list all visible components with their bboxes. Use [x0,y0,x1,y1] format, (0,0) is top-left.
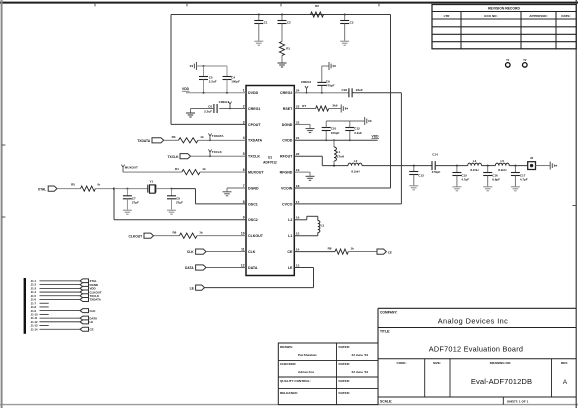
node L1 top [333,139,335,141]
inductor L4 [468,159,482,172]
port arrow CLK [187,249,206,254]
svg-text:6.8pF: 6.8pF [492,178,500,182]
svg-text:2.2uF: 2.2uF [354,131,362,135]
svg-text:470pF: 470pF [326,84,335,88]
node TXDATA flag [209,139,211,141]
wire C18 to CVCO vertical [352,92,401,94]
svg-text:ADF7012: ADF7012 [263,161,277,165]
wire to OSC1 pin 8 [196,203,247,205]
svg-text:100pF: 100pF [231,80,240,84]
capacitor C16 [483,166,500,187]
svg-text:CPOUT: CPOUT [248,123,261,127]
svg-text:C2: C2 [287,20,291,24]
connector J1 pin J1-6 net TXDATA [31,298,102,302]
svg-text:J1-9: J1-9 [31,309,37,313]
svg-text:TITLE:: TITLE: [380,330,390,334]
wire TXDATA [164,139,179,141]
wire RF line 3 [435,165,468,167]
wire pin 2 CREG1 [219,108,246,110]
node C7 top [126,188,128,190]
svg-text:8: 8 [243,200,245,204]
wire pin 22 DGND [294,123,310,125]
svg-text:RFGND: RFGND [280,171,293,175]
svg-text:10: 10 [241,232,245,236]
svg-text:T1: T1 [506,58,510,62]
svg-text:A: A [563,379,568,386]
svg-text:1k: 1k [202,167,206,171]
svg-text:J1-11: J1-11 [31,316,38,320]
svg-text:VDD: VDD [182,87,190,91]
svg-text:LE: LE [90,320,94,324]
node CREG2 flag [306,92,308,94]
svg-text:J1-14: J1-14 [31,327,38,331]
ground at C15 [452,187,461,191]
svg-text:CLK: CLK [187,250,194,254]
connector J1 pin J1-9 net CLK [31,309,97,313]
svg-text:J1-2: J1-2 [31,283,37,287]
port arrow CLKOUT [128,233,153,238]
ground at C13 [409,186,418,190]
svg-text:CREG1: CREG1 [219,100,230,104]
wire node A to crystal [114,188,148,190]
wire pin 20 RFOUT [294,155,322,157]
svg-text:13: 13 [296,263,300,267]
svg-text:LE: LE [288,266,293,270]
svg-text:20: 20 [296,152,300,156]
svg-text:J2: J2 [530,156,534,160]
wire C5/C4 top rail [197,65,228,67]
svg-text:ECO NO:: ECO NO: [484,14,497,18]
capacitor C10 [322,121,340,140]
resistor R1 [279,42,290,63]
wire pin 21 CVDD [294,139,377,141]
svg-text:VDD: VDD [372,134,380,138]
wire pin 19 RFGND [294,171,310,173]
node C12 bottom [349,139,351,141]
svg-text:CVCO: CVCO [282,202,293,206]
svg-text:COMPANY:: COMPANY: [380,310,397,314]
wire R5 to node A [95,188,114,190]
resistor R5 [71,183,101,192]
svg-text:VCOIN: VCOIN [281,186,293,190]
svg-text:21: 21 [296,136,300,140]
svg-text:RELEASED:: RELEASED: [280,391,298,395]
svg-text:14: 14 [296,248,300,252]
test point TP1 [506,58,511,67]
ground at C6 [186,109,195,118]
svg-text:RSET: RSET [283,107,293,111]
wire R7 to ground [329,108,341,110]
ground flag (sideways) at C10/C12 [365,117,372,125]
wire R8 to CE port [348,251,377,253]
wire R6 to pin 10 [197,235,246,237]
ground at pin 22 [306,124,315,132]
svg-text:22: 22 [296,120,300,124]
svg-text:OSC2: OSC2 [248,218,258,222]
svg-text:22uF: 22uF [356,88,363,92]
svg-text:J1-8: J1-8 [31,305,37,309]
svg-text:REVISION RECORD: REVISION RECORD [488,7,520,11]
inductor L3 [318,216,325,235]
capacitor C3 [340,15,354,41]
net label VDD (pin21) [372,134,380,138]
wire VCOIN pin 18 [294,187,390,189]
svg-text:DATED:: DATED: [339,345,350,349]
svg-text:DVDD: DVDD [248,91,259,95]
net flag TXCLK [208,149,222,156]
title block approvals [278,343,378,405]
svg-text:QUALITY CONTROL:: QUALITY CONTROL: [280,379,311,383]
svg-text:L2: L2 [354,159,358,163]
svg-text:C16: C16 [492,173,498,177]
svg-text:DATED:: DATED: [339,379,350,383]
connector J1 pin J1-14 net CE [31,327,94,331]
net flag CREG1 [219,100,232,109]
svg-text:CLKOUT: CLKOUT [128,234,142,238]
svg-text:R1: R1 [286,46,290,50]
node CREG1 flag [229,108,231,110]
capacitor C5 [199,66,217,93]
wire CLKOUT [154,235,180,237]
node C4 bottom [226,92,228,94]
frame tick left 1 [2,144,6,146]
svg-text:8.2nH: 8.2nH [498,168,506,172]
svg-text:C3: C3 [350,20,354,24]
svg-text:Pat Sheahan: Pat Sheahan [298,353,317,357]
connector J1 pin J1-1 net XTAL [31,279,97,283]
svg-text:12: 12 [241,263,245,267]
svg-text:CE: CE [287,250,293,254]
svg-text:C6: C6 [208,105,212,109]
connector J1 pin J1-5 net TXCLK [31,294,100,298]
wire pin 16 L2 [294,216,318,220]
svg-text:3: 3 [243,120,245,124]
svg-text:1k: 1k [200,135,204,139]
svg-text:11: 11 [241,248,245,252]
wire CLK to pin 11 [206,251,246,253]
connector J1 pin J1-13 (nc) [31,324,49,328]
node C16 [487,165,489,167]
op-amp U1 (IC ADF7012 transmitter, pin names and numbers) [241,86,300,276]
wire VDD to pin 1 DVDD [186,92,246,94]
net flag CREG2 [301,80,312,93]
port arrow TXCLK [168,154,191,160]
node C2 top [281,14,283,16]
wire R4 to pin 6 [200,171,246,173]
svg-text:TXCLK: TXCLK [248,155,260,159]
svg-text:4.7pF: 4.7pF [461,178,469,182]
net label VDD (pin1) [182,87,190,91]
wire LE horizontal [205,287,314,289]
wire RFOUT jog down [321,156,323,165]
svg-text:TXDATA: TXDATA [248,139,262,143]
svg-text:TXDATA: TXDATA [137,139,150,143]
capacitor C14 (series) [432,153,441,175]
svg-text:6: 6 [243,168,245,172]
svg-text:DRAWN:: DRAWN: [280,345,293,349]
crystal Y1 [148,180,156,194]
svg-text:CREG1: CREG1 [248,107,260,111]
wire CVCO pin 17 [294,203,401,205]
svg-text:100pF: 100pF [331,131,340,135]
test point TP2 [523,58,528,67]
ground at pin 19 [306,172,315,180]
svg-text:MUXOUT: MUXOUT [125,165,138,169]
capacitor C4 [223,66,241,93]
node C5 bottom [203,92,205,94]
resistor R7 [302,104,337,112]
capacitor C12 [345,121,362,140]
svg-text:J1-5: J1-5 [31,294,37,298]
svg-text:CE: CE [388,250,392,254]
wire C6 to ground [191,108,214,110]
frame tick right 1 [572,205,576,207]
resistor R2 [311,4,324,17]
svg-text:16: 16 [296,216,300,220]
svg-text:C1: C1 [264,20,268,24]
svg-text:CE: CE [90,327,94,331]
wire node A down [113,189,115,220]
svg-text:24: 24 [296,89,300,93]
svg-text:CVDD: CVDD [282,139,293,143]
frame tick top 2 [186,3,188,7]
svg-text:R4: R4 [175,167,179,171]
svg-text:2.2uF: 2.2uF [204,110,212,114]
svg-text:L4: L4 [473,159,477,163]
port arrow TXDATA [137,138,163,143]
connector J1 pin J1-11 net DATA [31,316,98,320]
svg-text:CLKOUT: CLKOUT [248,234,264,238]
svg-text:C18: C18 [341,88,347,92]
svg-text:22 June '04: 22 June '04 [352,370,369,374]
svg-text:8.2nH: 8.2nH [351,170,359,174]
wire R3 to pin 4 [198,139,246,141]
svg-text:J1-13: J1-13 [31,324,38,328]
svg-text:APPROVED:: APPROVED: [529,14,547,18]
revision record table [432,5,576,49]
svg-text:1k: 1k [351,247,355,251]
svg-text:J1-1: J1-1 [31,279,37,283]
node C9 bottom [321,92,323,94]
svg-text:9: 9 [243,216,245,220]
svg-text:DGND: DGND [248,186,259,190]
title block [378,308,576,404]
svg-text:CLK: CLK [90,309,97,313]
svg-text:TXDATA: TXDATA [90,298,102,302]
svg-text:ADF7012 Evaluation Board: ADF7012 Evaluation Board [429,345,523,354]
connector J1 pin J1-12 net LE [31,320,94,324]
ground flag (sideways) for C5/C4 [190,62,197,70]
svg-text:J1-10: J1-10 [31,312,38,316]
svg-text:CLK: CLK [248,250,256,254]
svg-text:SIZE:: SIZE: [433,361,441,365]
svg-text:Analog Devices Inc: Analog Devices Inc [438,317,509,326]
ground flag (sideways) at J2 [550,162,557,170]
ground at R1 [278,63,287,67]
port arrow DATA [185,265,206,270]
wire DATA to pin 12 [206,267,246,269]
resistor R4 [175,167,206,175]
capacitor C1 [254,15,268,41]
svg-text:XTAL: XTAL [38,187,46,191]
node A (osc) [113,188,115,190]
wire pin 23 RSET [294,108,315,110]
svg-text:DGND: DGND [282,123,293,127]
resistor R3 [172,135,204,143]
ground flag (sideways) at C9 [329,62,336,70]
connector J1 pin J1-8 (nc) [31,305,49,309]
svg-text:CODE:: CODE: [397,361,407,365]
connector J1 pin J1-10 (nc) [31,312,49,316]
svg-text:27nH: 27nH [337,155,344,159]
capacitor C2 [278,15,292,42]
svg-text:22 June '04: 22 June '04 [352,353,369,357]
wire jog down to OSC1 [195,189,197,204]
capacitor C8 [167,189,183,210]
ground at pin 7 [223,188,232,196]
node C13 [413,165,415,167]
capacitor C17 [511,166,528,187]
svg-text:Eval-ADF7012DB: Eval-ADF7012DB [471,377,532,386]
wire CVCO vertical [400,93,402,204]
svg-text:CREG2: CREG2 [280,91,292,95]
svg-text:J1-7: J1-7 [31,301,37,305]
ground at C16 [483,187,492,191]
connector J2 (RF SMA) [528,156,536,170]
inductor L2 [348,159,362,173]
svg-text:OSC1: OSC1 [248,202,258,206]
svg-text:1: 1 [243,89,245,93]
ground at C3 [340,41,349,45]
capacitor C6 (series to gnd) [204,104,217,114]
wire XTAL to R5 [57,188,81,190]
sheet border right [575,0,577,408]
sheet border top [0,2,578,4]
wire C9 top to ground [322,65,329,67]
svg-text:TXCLK: TXCLK [168,155,180,159]
frame tick top 3 [280,3,282,7]
wire loop filter left vertical [170,15,172,125]
wire LE to pin 13 [294,267,313,269]
node C1 top [258,14,260,16]
wire TXCLK to pin 5 [191,155,247,157]
svg-text:T2: T2 [523,58,527,62]
node C10 bottom [325,139,327,141]
ground at C8 [167,210,176,214]
svg-text:R2: R2 [315,4,319,8]
svg-text:C15: C15 [461,173,467,177]
svg-text:L3: L3 [321,224,325,228]
wire LE vertical [313,268,315,288]
svg-text:J1-3: J1-3 [31,286,37,290]
svg-text:17: 17 [296,200,300,204]
wire RF line 4 [482,165,496,167]
ground at C1 [254,41,263,45]
ground at C17 [511,187,520,191]
svg-text:DATED:: DATED: [339,391,350,395]
wire crystal to C8 [156,188,172,190]
svg-text:C13: C13 [418,174,424,178]
svg-text:L2: L2 [288,218,292,222]
svg-text:J1-4: J1-4 [31,290,37,294]
frame tick top 4 [378,3,380,7]
svg-text:L1: L1 [337,150,341,154]
svg-text:4: 4 [243,136,245,140]
connector J1 pin J1-7 (nc) [31,301,49,305]
port arrow LE [190,285,205,290]
svg-text:TXDATA: TXDATA [212,134,225,138]
svg-text:R3: R3 [172,135,176,139]
svg-text:23: 23 [296,104,300,108]
svg-text:R5: R5 [71,183,75,187]
net flag MUXOUT [121,165,138,173]
connector J1 pin J1-3 net VDD [31,286,96,290]
svg-text:J1-6: J1-6 [31,298,37,302]
svg-text:L5: L5 [501,159,505,163]
svg-text:RFOUT: RFOUT [280,155,293,159]
sheet border left [1,0,3,408]
svg-text:15: 15 [296,232,300,236]
wire pin 7 DGND [227,187,246,189]
svg-text:27pF: 27pF [132,200,139,204]
svg-text:Adrian Fox: Adrian Fox [298,370,314,374]
svg-text:L1: L1 [288,234,292,238]
port arrow CE [377,249,392,254]
frame tick left 2 [2,216,6,218]
svg-text:3k9: 3k9 [332,104,337,108]
wire pin 15 L1 [294,235,318,237]
svg-text:U1: U1 [268,156,272,160]
svg-text:2.2uF: 2.2uF [209,80,217,84]
capacitor C9 [317,66,334,93]
wire CPOUT pin 3 [171,123,246,125]
svg-text:2: 2 [243,104,245,108]
wire J2 to ground [536,165,550,167]
svg-text:MUXOUT: MUXOUT [248,171,264,175]
node C3 top [344,14,346,16]
resistor R8 [328,247,355,255]
node C17 [514,165,516,167]
svg-text:DRAWING NO:: DRAWING NO: [490,361,511,365]
wire pin 24 CREG2 [294,92,348,94]
svg-text:LTR: LTR [444,14,451,18]
capacitor C13 [409,166,424,186]
wire RF line 2 [362,165,432,167]
svg-text:8.2nH: 8.2nH [470,168,478,172]
svg-text:1k: 1k [199,231,203,235]
wire MUXOUT [123,171,182,173]
svg-text:4.7pF: 4.7pF [520,178,528,182]
svg-text:470pF: 470pF [432,170,441,174]
ground at C7 [123,210,132,214]
svg-text:SCALE:: SCALE: [380,400,392,404]
wire pin 14 CE [294,251,335,253]
node C5 top [203,65,205,67]
svg-text:J1-12: J1-12 [31,320,38,324]
frame tick top 1 [94,3,96,7]
svg-text:C14: C14 [432,153,438,157]
node TXCLK flag [209,155,211,157]
connector J1 pin J1-4 net CLKOUT [31,290,102,294]
node C8 top [171,188,173,190]
capacitor C15 [452,166,469,187]
wire C10/C12 top rail [326,120,364,122]
connector J1 body [24,278,26,334]
sheet border bottom [0,404,578,406]
connector J1 pin J1-2 net DGND [31,283,98,287]
capacitor C18 (series) [341,88,363,97]
svg-text:DATE:: DATE: [561,14,570,18]
